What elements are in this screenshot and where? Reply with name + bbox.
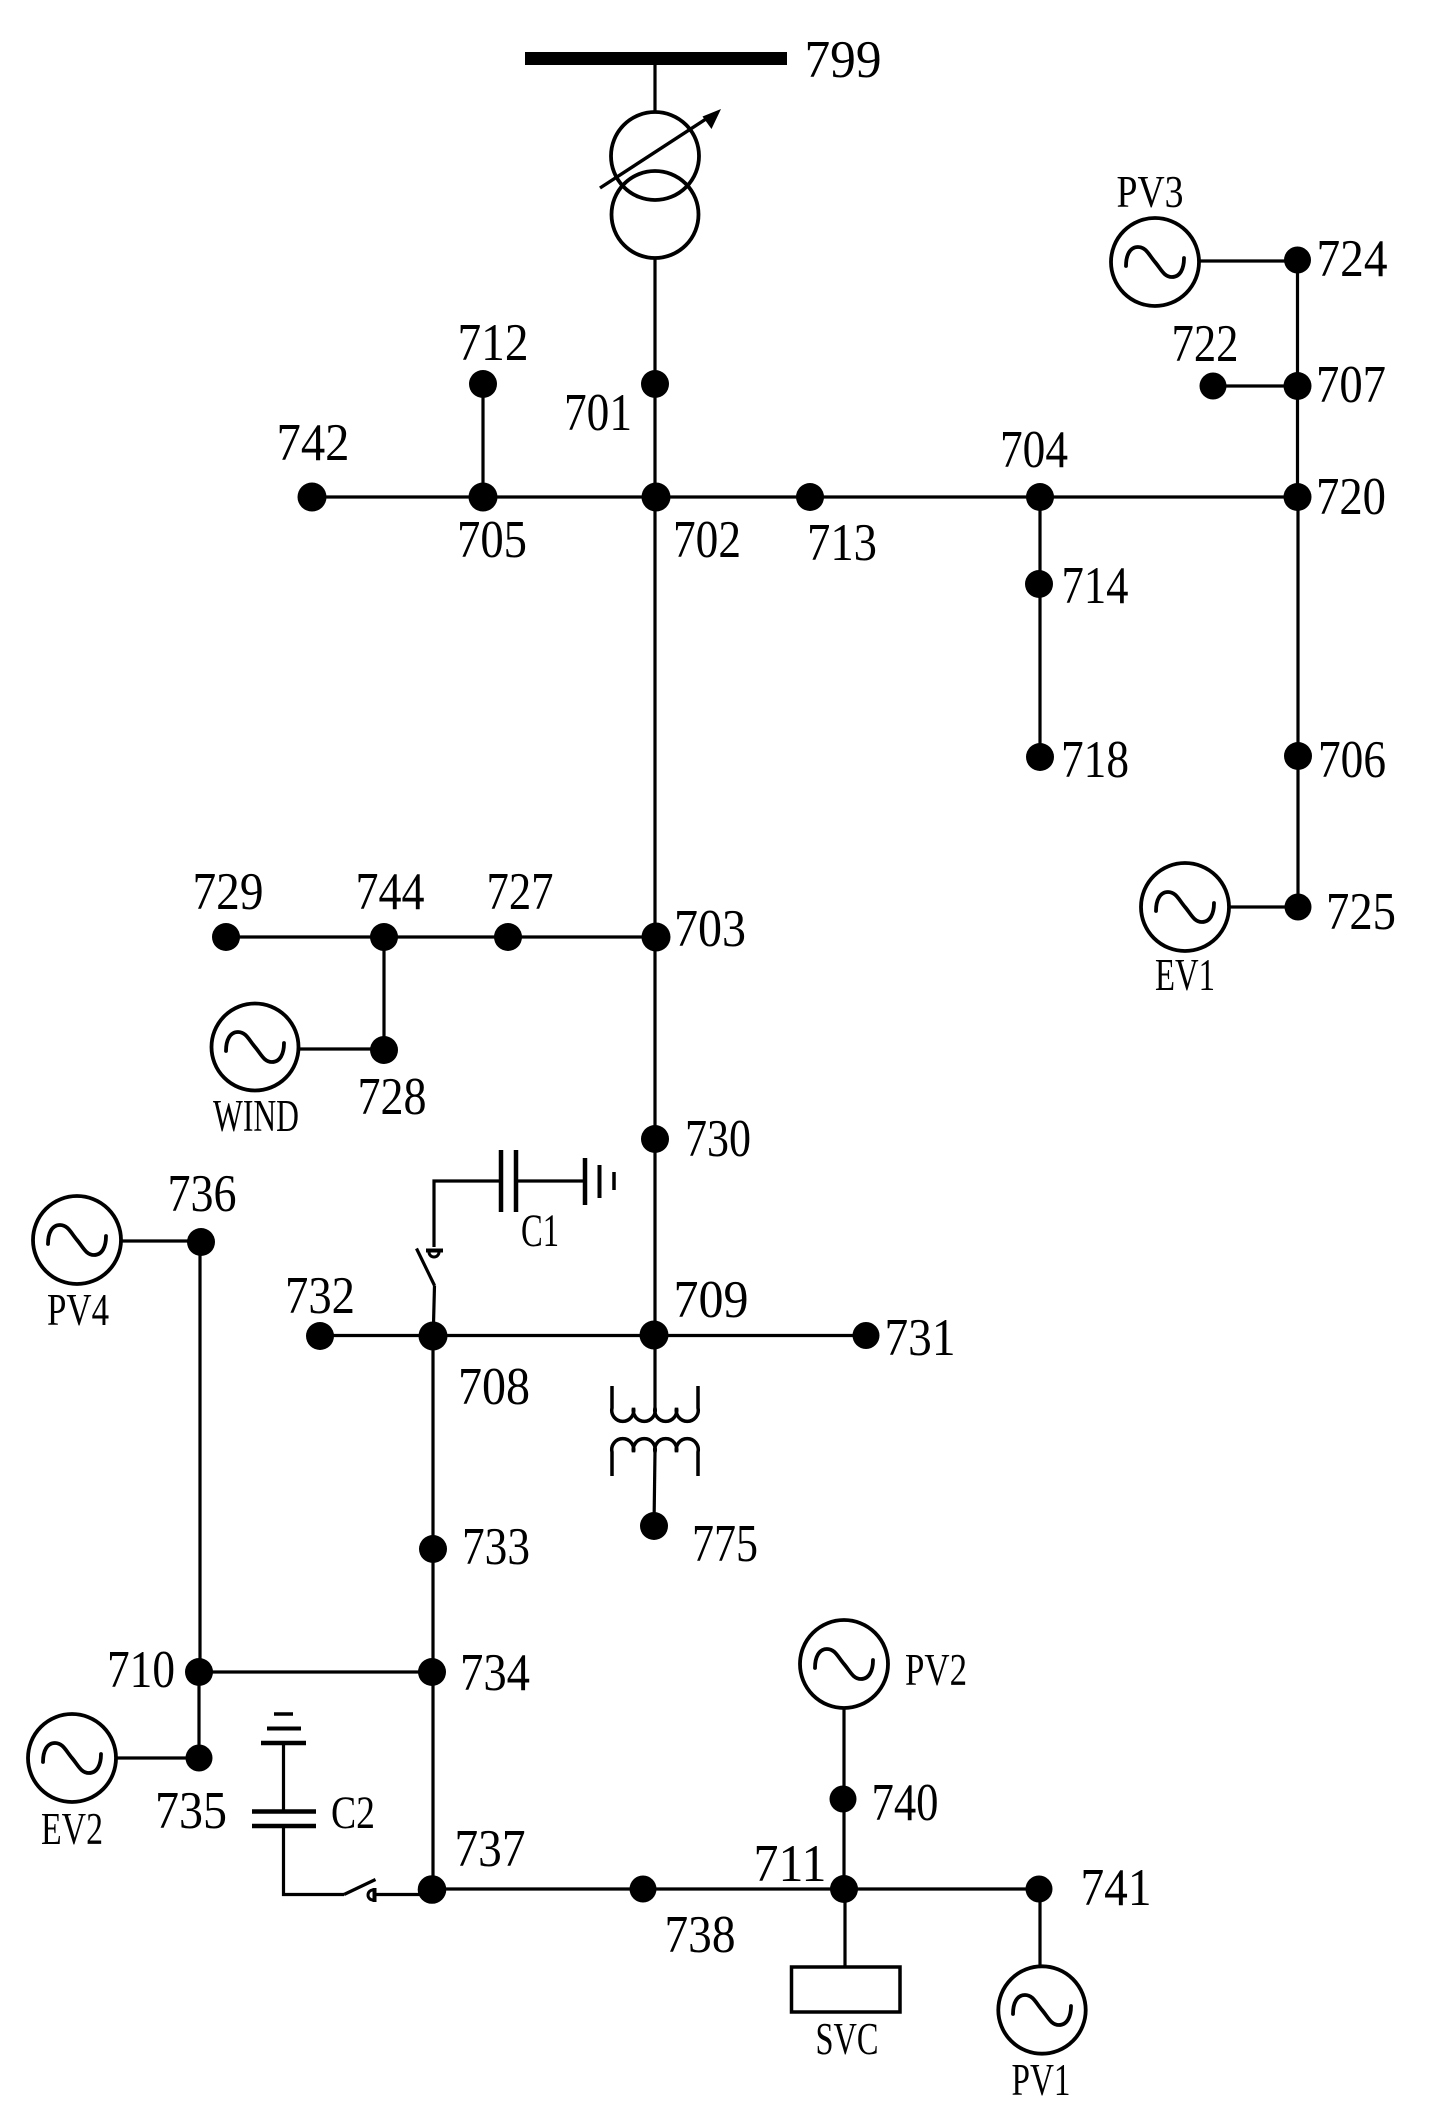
svg-text:735: 735 (155, 1782, 227, 1840)
svg-text:742: 742 (277, 414, 350, 472)
svg-text:SVC: SVC (816, 2014, 879, 2064)
svg-text:731: 731 (885, 1309, 956, 1367)
svg-text:722: 722 (1172, 315, 1239, 373)
switch S1 blade (417, 1249, 435, 1286)
wire PV4 to 736 (121, 1239, 201, 1242)
wire PV3 to 724 (1199, 259, 1298, 262)
svg-text:733: 733 (462, 1518, 530, 1576)
wire 704 to 714 to 718 (1038, 497, 1041, 757)
node 727 (494, 923, 522, 951)
svg-text:737: 737 (455, 1820, 526, 1878)
svg-text:727: 727 (487, 863, 554, 921)
svg-text:C1: C1 (521, 1205, 559, 1257)
node 711 (830, 1875, 858, 1903)
wire EV2 to 735 (116, 1756, 199, 1759)
node 728 (370, 1036, 398, 1064)
node 720 (1284, 483, 1312, 511)
transformer XFM-1 secondary winding (612, 1439, 698, 1476)
svg-text:708: 708 (458, 1358, 530, 1416)
node 701 (641, 370, 669, 398)
generator PV4 (33, 1196, 121, 1284)
generator PV2 (800, 1620, 888, 1708)
svg-text:704: 704 (1000, 421, 1068, 479)
voltage regulator T799 circles (611, 112, 699, 258)
wire EV1 to 725 (1229, 905, 1298, 908)
svg-text:725: 725 (1326, 883, 1396, 941)
node 740 (830, 1786, 857, 1813)
wire 720 up to 707 and 724 (1296, 260, 1299, 497)
svg-text:799: 799 (805, 31, 882, 89)
node 737 (418, 1875, 447, 1904)
svg-text:732: 732 (285, 1267, 355, 1325)
capacitor C2 ground (274, 1712, 293, 1716)
svg-text:PV1: PV1 (1012, 2055, 1071, 2105)
wire 741 to PV1 (1038, 1889, 1041, 1966)
svg-text:720: 720 (1316, 468, 1386, 526)
node 713 (796, 483, 824, 511)
svg-text:709: 709 (674, 1271, 749, 1329)
svg-text:738: 738 (665, 1906, 736, 1964)
node 714 (1025, 570, 1053, 598)
node 729 (212, 923, 240, 951)
svg-text:PV4: PV4 (47, 1285, 109, 1335)
node 712 (469, 370, 497, 398)
svg-text:PV2: PV2 (905, 1645, 967, 1695)
wire feeder 737-738-711-741 (432, 1887, 1039, 1890)
node 705 (469, 483, 498, 512)
svg-text:740: 740 (872, 1774, 939, 1832)
bus 799 (525, 52, 787, 65)
svg-text:714: 714 (1062, 557, 1129, 615)
svg-text:EV1: EV1 (1155, 950, 1215, 1000)
wire 712 to 705 (481, 384, 484, 497)
svg-text:702: 702 (673, 511, 741, 569)
node 738 (630, 1876, 657, 1903)
transformer XFM-1 primary winding (612, 1386, 698, 1421)
SVC box (792, 1967, 901, 2012)
wire 722 to 707 (1213, 384, 1298, 387)
svg-text:EV2: EV2 (41, 1804, 103, 1854)
svg-text:710: 710 (107, 1641, 175, 1699)
wire main vertical 799-701-702-703-730-709 (653, 65, 656, 1335)
node 703 (642, 923, 671, 952)
svg-text:729: 729 (193, 863, 264, 921)
svg-text:701: 701 (564, 384, 632, 442)
node 731 (853, 1322, 880, 1349)
node 707 (1284, 372, 1312, 400)
node 735 (186, 1745, 213, 1772)
generator EV2 (28, 1714, 116, 1802)
wire feeder 742-705-702-713-704-720 (312, 495, 1298, 498)
capacitor C1 branch: elbow wire (434, 1181, 501, 1247)
svg-text:736: 736 (168, 1165, 237, 1223)
svg-text:707: 707 (1316, 356, 1386, 414)
wire 708 down to 733 734 737 (431, 1336, 434, 1890)
node 725 (1285, 894, 1312, 921)
node 742 (298, 483, 327, 512)
node 702 (642, 483, 671, 512)
wire S2 to 737 (375, 1893, 433, 1896)
switch S1 contact (426, 1249, 443, 1253)
node 775 (640, 1512, 668, 1540)
svg-text:703: 703 (674, 900, 746, 958)
svg-text:706: 706 (1318, 731, 1386, 789)
generator WIND (212, 1004, 299, 1091)
switch S2 blade (344, 1880, 376, 1895)
node 709 (640, 1321, 669, 1350)
node 741 (1026, 1876, 1053, 1903)
wire feeder 732-708-709-731 (320, 1334, 866, 1337)
generator EV1 (1141, 863, 1229, 951)
node 724 (1284, 247, 1311, 274)
node 744 (370, 923, 398, 951)
switch S2 contact (373, 1888, 377, 1902)
svg-text:C2: C2 (331, 1787, 375, 1839)
wire 710 to 734 (199, 1670, 433, 1673)
wire 744 to 728 (382, 937, 385, 1050)
wire 720 down to 706 and 725 (1296, 497, 1299, 907)
svg-text:744: 744 (356, 863, 425, 921)
node 718 (1026, 743, 1054, 771)
svg-text:734: 734 (460, 1644, 530, 1702)
wire feeder 729-744-727-703 (226, 935, 656, 938)
svg-text:728: 728 (358, 1068, 427, 1126)
node 706 (1284, 742, 1312, 770)
wire S1 to 708 (434, 1286, 435, 1325)
node 710 (185, 1658, 213, 1686)
svg-text:WIND: WIND (213, 1091, 299, 1141)
svg-text:712: 712 (458, 314, 529, 372)
generator PV3 (1111, 218, 1199, 306)
wire C2 plate down and right to switch S2 (284, 1826, 345, 1895)
wire WIND to 728 (298, 1047, 384, 1050)
node 733 (419, 1535, 447, 1563)
node 730 (641, 1125, 669, 1153)
wire C2 ground to plate (282, 1743, 285, 1812)
capacitor C1 plates (499, 1150, 504, 1212)
wire PV2 to 740 to 711 (842, 1708, 845, 1889)
node 732 (306, 1322, 334, 1350)
svg-text:713: 713 (807, 514, 877, 572)
wire XFM-1 secondary to 775 (654, 1452, 655, 1526)
svg-text:711: 711 (754, 1835, 827, 1893)
svg-text:705: 705 (457, 511, 527, 569)
node 704 (1026, 483, 1054, 511)
svg-text:775: 775 (692, 1515, 758, 1573)
svg-text:PV3: PV3 (1117, 167, 1184, 217)
capacitor C2 plates (252, 1809, 316, 1814)
generator PV1 (998, 1966, 1085, 2053)
svg-text:718: 718 (1061, 731, 1129, 789)
wire 709 to XFM-1 primary (653, 1335, 656, 1408)
node 734 (418, 1658, 446, 1686)
wire 710 to 735 (197, 1672, 200, 1758)
svg-text:730: 730 (685, 1110, 751, 1168)
wire 711 to SVC (843, 1889, 846, 1967)
wire C1 plate to ground (516, 1179, 585, 1182)
node 736 (187, 1228, 215, 1256)
node 708 (419, 1322, 448, 1351)
svg-text:741: 741 (1081, 1859, 1152, 1917)
wire 736 to 710 (198, 1242, 201, 1672)
voltage regulator arrow (600, 117, 709, 188)
node 722 (1200, 373, 1227, 400)
ground of C1 (583, 1158, 588, 1205)
svg-text:724: 724 (1317, 230, 1388, 288)
